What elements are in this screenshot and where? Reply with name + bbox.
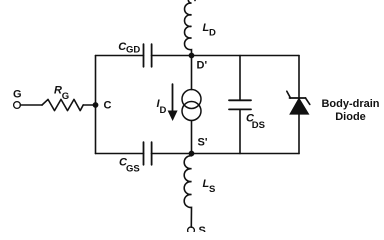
wire bbox=[191, 121, 193, 154]
wire diode branch upper bbox=[298, 56, 300, 99]
capacitor CDS bbox=[229, 100, 251, 109]
svg-text:G: G bbox=[13, 89, 22, 101]
wire diode branch lower bbox=[298, 114, 300, 154]
node S' bbox=[189, 151, 195, 157]
svg-text:DS: DS bbox=[252, 120, 265, 131]
svg-text:S': S' bbox=[198, 137, 208, 149]
wire bbox=[152, 153, 192, 155]
svg-text:Diode: Diode bbox=[335, 111, 366, 123]
terminal S bbox=[188, 227, 195, 234]
wire bbox=[152, 55, 192, 57]
arrow ID bbox=[168, 84, 176, 120]
node C bbox=[93, 102, 99, 108]
wire CDS branch lower bbox=[239, 109, 241, 153]
capacitor CGD bbox=[144, 44, 152, 67]
wire bottom rail bbox=[192, 153, 300, 155]
svg-text:D: D bbox=[209, 28, 216, 39]
capacitor CGS bbox=[144, 142, 152, 165]
wire bbox=[20, 104, 42, 106]
svg-text:Body-drain: Body-drain bbox=[321, 98, 379, 110]
wire CDS branch upper bbox=[239, 56, 241, 101]
svg-text:S: S bbox=[209, 184, 215, 195]
svg-text:GS: GS bbox=[126, 164, 140, 175]
svg-text:G: G bbox=[62, 91, 69, 102]
terminal G bbox=[14, 102, 21, 109]
svg-text:D: D bbox=[160, 105, 167, 116]
wire top rail bbox=[192, 55, 300, 57]
resistor RG bbox=[42, 99, 83, 110]
svg-text:GD: GD bbox=[126, 45, 140, 56]
wire bbox=[96, 55, 144, 57]
inductor LD bbox=[185, 0, 196, 55]
inductor LS bbox=[184, 156, 191, 227]
svg-text:C: C bbox=[104, 100, 112, 112]
current source ID bbox=[182, 90, 201, 121]
wire bbox=[96, 153, 144, 155]
wire left vertical bbox=[95, 56, 97, 154]
diode body-drain (zener) bbox=[287, 91, 310, 114]
wire bbox=[83, 104, 95, 106]
svg-text:D': D' bbox=[197, 60, 208, 72]
svg-text:S: S bbox=[199, 225, 206, 232]
node D' bbox=[189, 53, 195, 59]
wire bbox=[191, 56, 193, 90]
